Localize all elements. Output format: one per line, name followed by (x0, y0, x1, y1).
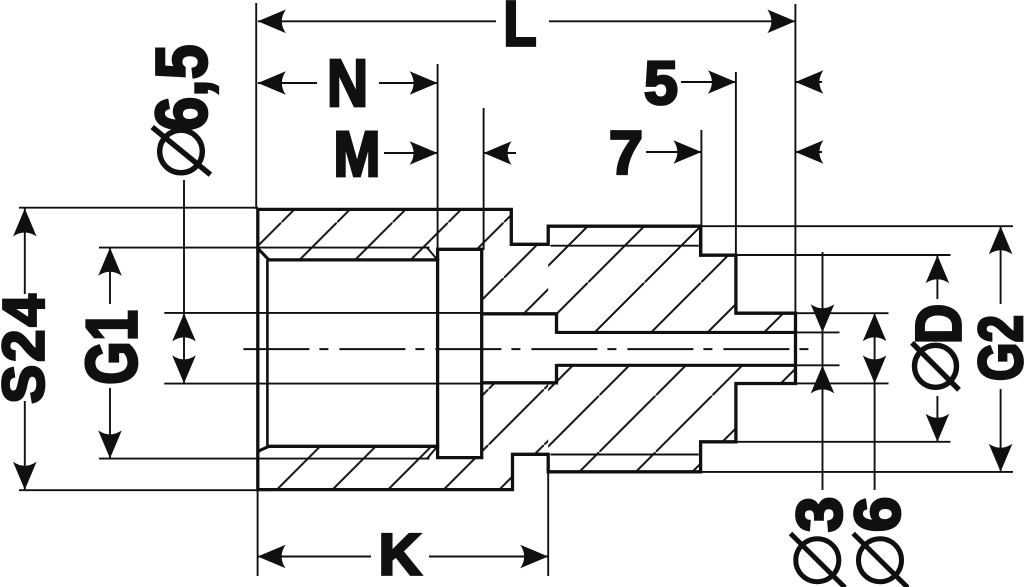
arrow G2 down (989, 444, 1013, 472)
svg-text:D: D (903, 304, 974, 344)
ext line dia6.5 top (164, 312, 481, 314)
dim line G1 (109, 248, 111, 304)
ext line right (L,5,7) (794, 4, 796, 313)
dim line 7 (646, 151, 701, 153)
ext line dia6.5 bottom (164, 383, 481, 385)
arrow dia6.5 up (172, 313, 196, 341)
internal thread crest line top (99, 247, 430, 249)
ext line left (L,N,K) (255, 3, 257, 209)
ext line dia6 top (797, 312, 889, 314)
arrow diaD up (926, 255, 950, 283)
dia symbol of dia3 (796, 539, 839, 582)
socket bore bottom line (268, 445, 440, 448)
arrow 7 left-head (673, 140, 701, 164)
svg-text:G1: G1 (72, 310, 152, 385)
external thread root line top (551, 245, 699, 247)
arrow diaD down (926, 414, 950, 442)
part outer outline (258, 209, 796, 489)
thread runout bottom (427, 447, 437, 459)
svg-text:5: 5 (644, 49, 678, 117)
svg-text:7: 7 (609, 119, 643, 187)
ext line S24 top (19, 207, 258, 209)
arrow dia3 up-head (811, 365, 835, 393)
ext line dia3 top (797, 331, 840, 333)
hatched cross-section fill, lower-left (258, 209, 796, 489)
ext line diaD top (737, 254, 951, 256)
arrow L left (258, 9, 286, 33)
arrow S24 up (13, 209, 37, 237)
thread undercut groove left wall (436, 249, 439, 457)
hatched cross-section fill, upper-left (258, 209, 796, 489)
dim line dia6.5 (183, 180, 185, 383)
dim line K (258, 556, 371, 558)
arrow G1 up (98, 248, 122, 276)
dia symbol of dia6 (859, 539, 902, 582)
ext line diaD bottom (737, 441, 951, 443)
ext line S24 bottom (19, 489, 272, 491)
external thread root line bottom (551, 454, 699, 456)
arrow N right (410, 71, 438, 95)
dim line M (384, 152, 438, 154)
counterbore end wall lower (555, 364, 558, 383)
dim line dia3 (822, 252, 824, 490)
ext line G2 top (701, 225, 1013, 227)
arrow 5 left-head (708, 70, 736, 94)
ext line K right (547, 472, 549, 576)
dia symbol of dia6.5 (160, 130, 203, 173)
ext line N right / M left (437, 64, 439, 250)
hatched cross-section fill, lower-right (258, 209, 796, 489)
arrow 7 right-head (795, 140, 823, 164)
arrow K right (520, 545, 548, 569)
ext line M right (483, 108, 485, 250)
svg-text:L: L (503, 0, 536, 59)
internal thread crest line bottom (99, 458, 430, 460)
socket entry chamfer bottom (258, 446, 269, 451)
ext line 7 left (700, 130, 702, 255)
arrow G2 up (989, 226, 1013, 254)
all line work inserted below (99, 209, 812, 489)
ext line K left (257, 490, 259, 576)
counterbore bottom edge (482, 381, 558, 384)
svg-text:6: 6 (842, 497, 914, 533)
ext line G2 bottom (701, 471, 1013, 473)
svg-text:6,5: 6,5 (142, 44, 222, 131)
arrow dia6.5 down (172, 355, 196, 383)
small bore bottom line (557, 364, 796, 367)
socket bore top line (268, 258, 440, 261)
groove bottom edge (436, 456, 483, 459)
arrow M right-head (484, 141, 512, 165)
hatched cross-section fill, upper-right (258, 209, 796, 489)
centerline (243, 348, 811, 350)
counterbore top edge (482, 312, 558, 315)
arrow dia3 down-head (811, 304, 835, 332)
counterbore end wall upper (555, 314, 558, 334)
dim line diaD (936, 255, 938, 299)
svg-text:M: M (334, 118, 381, 190)
dia symbol of diaD (915, 345, 957, 387)
ext line dia3 bottom (797, 364, 840, 366)
arrow 5 right-head (795, 70, 823, 94)
dim line L (258, 20, 496, 22)
arrow dia6 down (863, 355, 887, 383)
arrow G1 down (98, 430, 122, 458)
arrow K left (258, 545, 286, 569)
arrow N left (258, 71, 286, 95)
arrow L right (767, 9, 795, 33)
svg-text:N: N (327, 47, 368, 121)
groove right wall / socket bottom face (480, 249, 483, 457)
arrow dia6 up (863, 313, 887, 341)
dim line dia6 (874, 313, 876, 490)
dim line S24 (24, 209, 26, 295)
dim line N (258, 82, 317, 84)
chamfer circle edge (266, 260, 269, 446)
dim line 5 (681, 81, 736, 83)
arrow S24 down (13, 462, 37, 490)
ext line dia6 bottom (797, 382, 889, 384)
thread runout top (427, 248, 437, 260)
svg-text:K: K (379, 523, 422, 587)
dim line G2 (1000, 226, 1002, 304)
arrow M left-head (410, 141, 438, 165)
svg-text:S24: S24 (0, 291, 57, 403)
socket entry chamfer top (258, 248, 269, 260)
small bore top line (557, 331, 796, 334)
groove top edge (436, 248, 483, 251)
ext line 5 left (735, 72, 737, 255)
svg-text:G2: G2 (966, 315, 1024, 381)
